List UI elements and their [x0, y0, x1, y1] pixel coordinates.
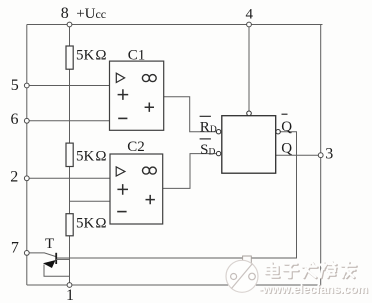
svg-text:Q: Q [281, 119, 292, 135]
svg-text:6: 6 [11, 111, 19, 128]
label SD-bar [200, 139, 216, 158]
wire C2 output to SD input [163, 154, 217, 189]
wire Q output to pin3 [276, 154, 321, 156]
svg-text:C2: C2 [127, 139, 145, 155]
IC package border [27, 25, 323, 286]
RD input bubble [216, 130, 220, 134]
watermark url www.elecfans.com [259, 282, 369, 297]
svg-text:5KΩ: 5KΩ [76, 148, 107, 164]
svg-text:5KΩ: 5KΩ [76, 47, 107, 63]
pin 5 terminal [24, 83, 29, 88]
wire pin7 to transistor collector [27, 253, 56, 257]
svg-text:3: 3 [325, 146, 333, 163]
svg-text:T: T [45, 236, 54, 252]
wire R1 to R2 [69, 69, 71, 143]
wire pin2 to C2 + input [27, 177, 110, 179]
pin 6 terminal [24, 118, 29, 123]
flip-flop U1 [222, 116, 276, 174]
wire pin5 to C1 + input [27, 85, 110, 87]
comparator C2 [110, 139, 163, 224]
svg-text:1: 1 [66, 287, 74, 303]
watermark logo [226, 256, 258, 292]
resistor R2 5K [66, 143, 107, 166]
svg-text:2: 2 [10, 168, 18, 185]
wire R2 to R3 [69, 167, 71, 214]
label RD-bar [200, 116, 217, 135]
transistor T [44, 236, 70, 268]
svg-text:4: 4 [246, 6, 254, 22]
label Q-bar [281, 114, 292, 135]
svg-text:7: 7 [11, 239, 19, 256]
pin 4 terminal [247, 22, 252, 27]
wire Q-bar output to transistor base [57, 132, 297, 258]
pin 7 terminal [24, 251, 29, 256]
resistor R1 5K [66, 46, 107, 69]
resistor R3 5K [66, 214, 107, 236]
flip-flop top bubble (pin4 reset) [247, 111, 252, 116]
SD input bubble [216, 151, 220, 155]
svg-text:+Ucc: +Ucc [76, 6, 106, 22]
watermark text dianzi fashaoyou [266, 262, 357, 279]
wire resistor junction to C2 - input [70, 200, 111, 202]
svg-text:8: 8 [61, 5, 69, 22]
Q-bar output bubble [276, 130, 280, 134]
wire pin6 to C1 - input [27, 120, 110, 122]
comparator C1 [110, 47, 164, 130]
wire R3 to pin1 [69, 236, 71, 285]
pin 8 terminal [67, 22, 72, 27]
svg-text:Q: Q [281, 141, 292, 157]
wire transistor emitter to pin1 [44, 265, 70, 277]
svg-text:5: 5 [11, 77, 19, 94]
svg-text:C1: C1 [128, 47, 146, 63]
svg-text:-www.elecfans.com: -www.elecfans.com [259, 282, 368, 296]
pin 3 terminal [318, 153, 323, 158]
pin 2 terminal [24, 176, 29, 181]
wire pin4 to flip-flop top bubble [248, 25, 250, 112]
pin 1 terminal [67, 283, 72, 288]
wire C1 output to RD input [164, 97, 217, 132]
svg-text:5KΩ: 5KΩ [76, 216, 107, 232]
wire pin8 stub to R1 [69, 25, 71, 47]
